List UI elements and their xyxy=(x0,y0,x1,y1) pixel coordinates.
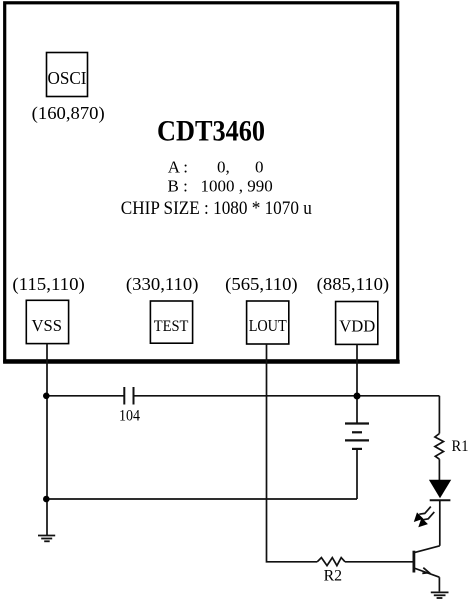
svg-text:(565,110): (565,110) xyxy=(225,274,298,295)
svg-text:VSS: VSS xyxy=(32,316,63,335)
svg-text:104: 104 xyxy=(119,408,140,425)
svg-text:(885,110): (885,110) xyxy=(317,274,390,295)
svg-text:0: 0 xyxy=(255,157,264,176)
svg-text:(330,110): (330,110) xyxy=(126,274,199,295)
svg-text:B :: B : xyxy=(168,177,188,196)
svg-text:CHIP SIZE : 1080 * 1070 u: CHIP SIZE : 1080 * 1070 u xyxy=(121,199,312,219)
svg-text:R1: R1 xyxy=(452,438,469,455)
svg-text:(160,870): (160,870) xyxy=(32,103,105,124)
svg-text:OSCI: OSCI xyxy=(48,68,87,88)
svg-text:A :: A : xyxy=(168,157,188,176)
svg-text:0,: 0, xyxy=(217,157,230,176)
svg-text:(115,110): (115,110) xyxy=(12,274,85,295)
svg-text:VDD: VDD xyxy=(339,317,375,336)
svg-text:TEST: TEST xyxy=(154,317,189,335)
svg-text:R2: R2 xyxy=(324,568,343,585)
svg-text:CDT3460: CDT3460 xyxy=(157,115,265,148)
svg-text:LOUT: LOUT xyxy=(249,316,287,335)
svg-text:1000 , 990: 1000 , 990 xyxy=(201,177,273,196)
